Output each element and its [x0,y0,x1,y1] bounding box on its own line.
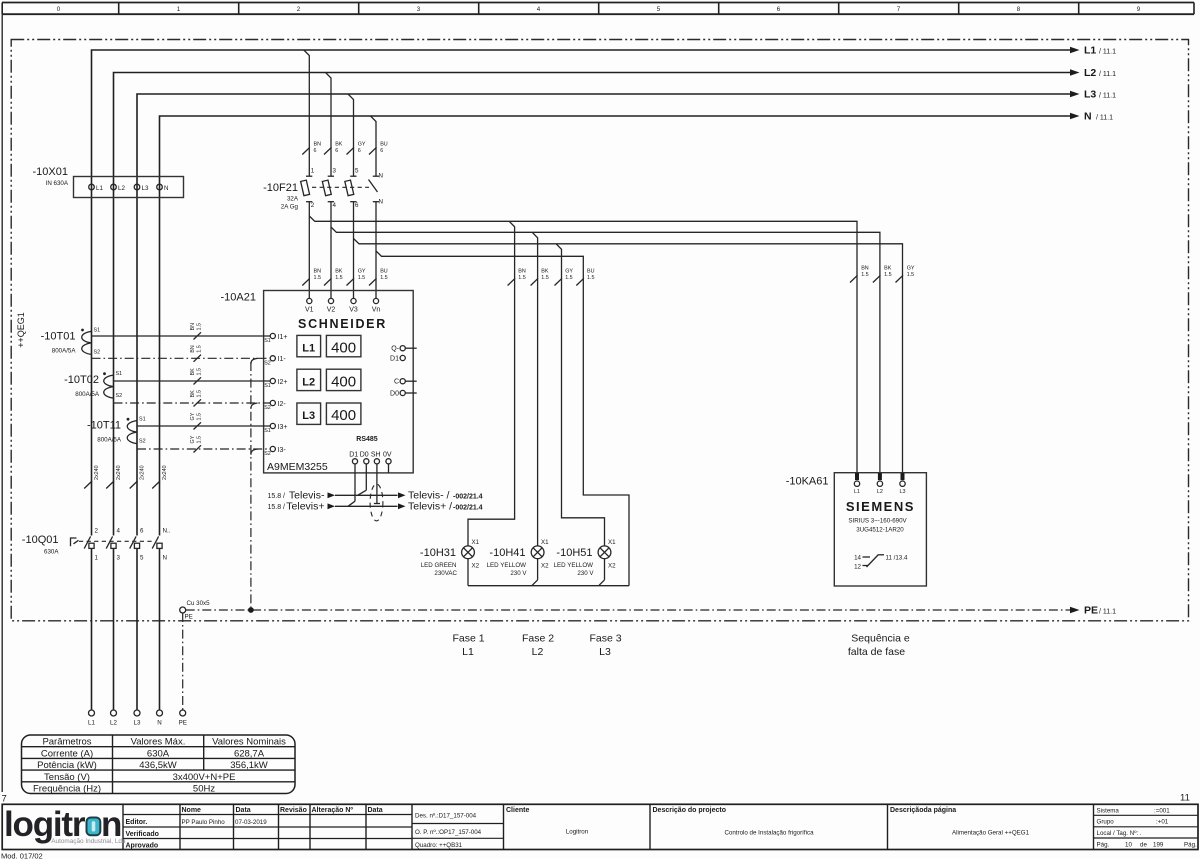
svg-text:-002/21.4: -002/21.4 [453,493,483,500]
svg-text:2: 2 [95,528,99,535]
title block [2,804,1198,849]
svg-text:Descriçãoda página: Descriçãoda página [890,807,956,814]
svg-text:LED GREEN: LED GREEN [421,562,457,569]
node Televis+ source [267,501,335,513]
wire L3 distribution after fuse [354,239,903,474]
svg-text:Cu 30x5: Cu 30x5 [187,600,211,607]
svg-text:BK: BK [884,266,892,272]
svg-text:1.5: 1.5 [518,275,526,281]
current transformer -10T02 [64,371,122,399]
svg-text:230 V: 230 V [510,570,527,577]
svg-text:N..: N.. [163,528,171,535]
svg-text:1: 1 [311,168,315,175]
svg-text:Potência (kW): Potência (kW) [37,760,97,771]
svg-text:1.5: 1.5 [884,272,892,278]
svg-text:630A: 630A [44,549,59,556]
wire L2 top bus [114,73,1072,711]
svg-text:3x400V+N+PE: 3x400V+N+PE [173,772,236,783]
fuse F21 pole 1 [301,176,313,202]
svg-text:L3: L3 [142,185,149,192]
svg-text:2A Gg: 2A Gg [281,204,299,211]
svg-text:S2: S2 [139,439,146,445]
wire lamp3 branch GY [555,244,605,546]
svg-text:PE: PE [179,720,187,727]
svg-text:Grupo: Grupo [1097,819,1115,826]
svg-text:V1: V1 [305,307,314,314]
svg-text:GY: GY [190,412,196,420]
svg-text:12: 12 [854,564,861,571]
svg-text:LED YELLOW: LED YELLOW [554,562,594,569]
logo logitron [4,805,126,845]
svg-text:Controlo de Instalação frigorí: Controlo de Instalação frigorífica [724,830,814,837]
node Televis- destination [398,490,483,502]
svg-text:GY: GY [565,269,573,275]
svg-text:Tensão (V): Tensão (V) [44,772,90,783]
node Televis- source [267,490,335,502]
svg-text:V2: V2 [327,307,336,314]
wire CT T01 S1 to I1+ [92,323,271,340]
svg-text:SIEMENS: SIEMENS [846,499,915,514]
svg-text:BU: BU [587,269,595,275]
wire lamp2 branch BK [531,232,549,546]
svg-text:S1: S1 [116,371,123,377]
svg-text:6: 6 [777,6,781,13]
svg-text:/ 11.1: / 11.1 [1099,609,1116,616]
wire L1 tap to fuse [304,50,310,176]
current transformer -10T01 [41,328,100,356]
svg-text:630A: 630A [147,748,170,759]
svg-text:7: 7 [2,794,7,805]
svg-text:N: N [157,720,161,727]
svg-text:6: 6 [335,148,338,154]
node Televis+ destination [398,501,483,513]
svg-text:Corrente (A): Corrente (A) [41,748,93,759]
svg-text:Sistema: Sistema [1097,808,1120,815]
svg-text:S2: S2 [94,349,101,355]
switch F21 pole N [369,176,380,202]
svg-text:-10F21: -10F21 [263,182,298,194]
phase monitor relay -10KA61 SIEMENS [786,473,927,586]
svg-text:X2: X2 [541,562,549,569]
svg-text:4: 4 [333,202,337,209]
svg-text:/ 11.1: / 11.1 [1099,49,1116,56]
svg-text:6: 6 [358,148,361,154]
svg-text:Data: Data [368,807,383,814]
svg-text:I1-: I1- [278,356,287,363]
wire lamps X2 return [468,559,629,586]
svg-text:2x240: 2x240 [116,465,122,480]
svg-text:L2: L2 [110,720,117,727]
svg-text:Logitron: Logitron [566,829,589,836]
svg-text:Descrição do projecto: Descrição do projecto [653,807,727,814]
svg-text:SH: SH [371,452,381,459]
svg-text:I2+: I2+ [278,379,288,386]
svg-text:1.5: 1.5 [197,368,203,376]
svg-text:LED YELLOW: LED YELLOW [487,562,527,569]
node PE/11.1 [1070,605,1116,617]
svg-text:10: 10 [1125,842,1132,849]
svg-text:IN 630A: IN 630A [46,180,69,187]
svg-text:D1: D1 [390,356,399,363]
svg-text:3: 3 [117,555,121,562]
svg-text:L3: L3 [302,410,315,422]
svg-text:1.5: 1.5 [197,345,203,353]
svg-text:Data: Data [236,807,251,814]
lamp -10H31 [420,539,480,577]
svg-text:07-03-2019: 07-03-2019 [235,819,267,826]
svg-text:S2: S2 [264,405,271,411]
svg-text:-10X01: -10X01 [33,166,68,178]
svg-text:3UG4512-1AR20: 3UG4512-1AR20 [856,527,904,534]
svg-text:2x240: 2x240 [94,465,100,480]
svg-text:C: C [394,379,399,386]
parameters table [22,735,296,795]
label Fase 1 L1 [452,633,484,659]
svg-text:L2: L2 [877,489,883,495]
label Mod [1,852,43,861]
svg-text:Q-: Q- [391,346,399,353]
svg-text:7: 7 [897,6,901,13]
svg-text:436,5kW: 436,5kW [139,760,177,771]
svg-text:L3: L3 [1084,89,1096,101]
svg-text:L3: L3 [900,489,906,495]
svg-text:1.5: 1.5 [861,272,869,278]
meter left terminals I1..I3 [264,333,287,457]
svg-text:BN: BN [518,269,526,275]
wire L2 distribution after fuse [331,227,880,473]
svg-text:14: 14 [854,555,861,562]
label Fase 3 L3 [589,633,621,659]
svg-text:X2: X2 [608,562,616,569]
PE terminal Cu 30x5 [180,600,210,620]
svg-text:-10T11: -10T11 [87,420,121,432]
svg-text:628,7A: 628,7A [234,748,265,759]
svg-text:11 /13.4: 11 /13.4 [886,555,908,562]
wire L2 tap to fuse [326,73,332,177]
svg-text:Televis+ /: Televis+ / [408,501,452,513]
svg-text:4: 4 [537,6,541,13]
lamp -10H51 [554,539,617,577]
svg-text:Quadro: ++QB31: Quadro: ++QB31 [415,842,463,849]
svg-text:BN: BN [314,269,322,275]
wire N top bus [160,116,1072,710]
svg-text:Editor.: Editor. [126,819,148,826]
svg-text:Fase 3: Fase 3 [589,633,621,645]
svg-text:++QEG1: ++QEG1 [16,312,26,348]
svg-text:S2: S2 [264,451,271,457]
svg-text::=001: :=001 [1154,808,1170,815]
svg-text:5: 5 [140,555,144,562]
svg-text:/ 11.1: / 11.1 [1099,93,1116,100]
wire CT T02 S1 to I2+ [114,368,271,385]
svg-text:D0: D0 [390,391,399,398]
wire fuseN to meter Vn [375,202,377,299]
svg-text:1.5: 1.5 [565,275,573,281]
wire L3 tap to fuse [348,94,354,176]
svg-text:S1: S1 [94,328,101,334]
svg-text:PE: PE [1084,605,1098,617]
svg-text:S1: S1 [264,383,271,389]
wire D1 to Televis+ [348,464,355,506]
wire CT T02 S2 to I2- [114,390,271,407]
svg-text:1.5: 1.5 [335,275,343,281]
meter right terminals Q- D1 C D0 [390,346,417,398]
wire N branch BU label [576,269,594,286]
svg-text:1.5: 1.5 [197,390,203,398]
svg-text:1.5: 1.5 [358,275,366,281]
svg-text:N: N [163,555,167,562]
svg-text:Pág.: Pág. [1184,842,1197,849]
wire CT T11 S1 to I3+ [137,412,270,429]
svg-text:BK: BK [335,142,343,148]
svg-text:Frequência (Hz): Frequência (Hz) [33,784,101,795]
svg-text:1.5: 1.5 [197,413,203,421]
wire N tap to fuse [371,116,377,176]
lamp -10H41 [487,539,550,577]
svg-text:-10A21: -10A21 [221,292,256,304]
svg-text:2x240: 2x240 [162,465,168,480]
node L1/11.1 [1070,45,1116,57]
wire fuse2 to meter V2 [330,202,332,299]
svg-text:1: 1 [177,6,181,13]
svg-text:PE: PE [185,613,193,620]
svg-text:L1: L1 [854,489,860,495]
svg-text:N: N [379,173,383,180]
svg-text:1.5: 1.5 [907,272,915,278]
svg-text:1.5: 1.5 [197,323,203,331]
svg-text:S1: S1 [264,428,271,434]
svg-text:-002/21.4: -002/21.4 [453,504,483,511]
svg-text:GY: GY [358,269,366,275]
svg-text:/ 11.1: / 11.1 [1096,115,1113,122]
svg-text:L1: L1 [462,646,474,658]
svg-text:BN: BN [861,266,869,272]
label Fase 2 L2 [522,633,554,659]
svg-text:L3: L3 [599,646,611,658]
svg-text:GY: GY [358,142,366,148]
svg-text:400: 400 [331,407,356,424]
svg-text:400: 400 [331,373,356,390]
svg-text:Fase 1: Fase 1 [452,633,484,645]
wire N distribution after fuse [376,251,629,586]
wire labels BN6 BK6 GY6 BU6 [302,142,387,155]
wire lamp1 branch BN [468,221,526,546]
wire CT T11 S2 to I3- [137,435,270,452]
wire labels BN1.5 set below fuse [302,269,387,286]
svg-text:-10H51: -10H51 [556,547,592,559]
svg-text:5: 5 [657,6,661,13]
svg-text:L1: L1 [302,343,315,355]
svg-text:2: 2 [297,6,301,13]
svg-text:1.5: 1.5 [380,275,388,281]
wire SH shield [374,464,380,504]
wire 0V stub [388,464,390,473]
junction S2 bus to PE [248,607,254,613]
svg-text:Des. nº.:D17_157-004: Des. nº.:D17_157-004 [415,813,477,820]
svg-text:L1: L1 [96,185,103,192]
svg-text:-10H31: -10H31 [420,547,456,559]
svg-text:6: 6 [380,148,383,154]
svg-text:-10T02: -10T02 [64,374,99,386]
wire S2 common bus [251,358,258,608]
svg-text:6: 6 [355,202,359,209]
svg-text:BN: BN [314,142,322,148]
svg-text:SIRIUS 3~-160-690V: SIRIUS 3~-160-690V [848,518,907,525]
svg-text:Fase 2: Fase 2 [522,633,554,645]
svg-text:X2: X2 [472,562,480,569]
svg-text:3: 3 [417,6,421,13]
svg-text:BN: BN [190,323,196,331]
svg-text:SCHNEIDER: SCHNEIDER [298,317,387,331]
svg-text:Cliente: Cliente [506,807,529,814]
svg-text:Alimentação Geral ++QEG1: Alimentação Geral ++QEG1 [952,830,1030,837]
svg-text:50Hz: 50Hz [193,784,215,795]
fuse F21 pole 3 [345,176,357,202]
wire PE riser [182,613,184,710]
svg-text:V3: V3 [349,307,358,314]
wire labels at Siemens drops [850,266,915,283]
svg-text:800A/5A: 800A/5A [52,348,77,355]
wire Televis+ [335,505,398,507]
meter bottom terminals D1 D0 SH 0V [349,452,392,464]
svg-text:2x240: 2x240 [140,465,146,480]
svg-text:BK: BK [190,368,196,376]
current transformer -10T11 [87,417,146,445]
svg-text:800A/5A: 800A/5A [75,391,100,398]
svg-text:L1: L1 [88,720,95,727]
svg-text:Nome: Nome [182,807,202,814]
circuit breaker -10Q01 [22,528,171,562]
svg-text:0: 0 [57,6,61,13]
svg-text:11: 11 [1180,793,1190,804]
svg-text:Televis+: Televis+ [286,501,324,513]
wire PE bus [186,609,1071,611]
svg-text:-10Q01: -10Q01 [22,534,59,546]
svg-text:1.5: 1.5 [197,436,203,444]
svg-text:0V: 0V [383,452,392,459]
svg-text:I3-: I3- [278,447,287,454]
svg-text:6: 6 [314,148,317,154]
svg-text:L2: L2 [302,376,315,388]
fuse switch -10F21 [263,168,383,211]
svg-text:BK: BK [335,269,343,275]
wire CT T01 S2 to I1- [92,345,271,362]
svg-text:/ 11.1: / 11.1 [1099,71,1116,78]
svg-text:Revisão: Revisão [280,807,307,814]
svg-text:-10T01: -10T01 [41,331,76,343]
svg-text:800A/5A: 800A/5A [97,437,122,444]
svg-text:BK: BK [190,390,196,398]
wire L3 top bus [137,94,1071,710]
terminal block X01 -10X01 [33,166,184,198]
svg-text:O. P. nº.:OP17_157-004: O. P. nº.:OP17_157-004 [415,829,482,836]
wire Televis- [335,494,398,496]
bottom terminals L1 L2 L3 N PE [88,710,187,727]
fuse F21 pole 2 [322,176,334,202]
svg-text:A9MEM3255: A9MEM3255 [267,461,328,473]
svg-text:I2-: I2- [278,401,287,408]
svg-text:GY: GY [907,266,915,272]
svg-text:Local / Tag. Nº: .: Local / Tag. Nº: . [1097,830,1142,837]
svg-text:1.5: 1.5 [314,275,322,281]
wire L1 distribution after fuse [309,216,857,473]
svg-text:de: de [1140,842,1147,849]
svg-text:S2: S2 [116,393,123,399]
svg-text:Vn: Vn [372,307,381,314]
svg-text:8: 8 [1017,6,1021,13]
node L2/11.1 [1070,67,1116,79]
svg-text:6: 6 [140,528,144,535]
svg-text:Valores Máx.: Valores Máx. [131,737,186,748]
svg-text::+01: :+01 [1156,819,1169,826]
svg-text:3: 3 [333,168,337,175]
cable screen ellipse [370,484,383,521]
wire D0 to Televis- [358,464,367,495]
svg-text:Alteração Nº: Alteração Nº [312,807,354,814]
svg-text:D0: D0 [360,452,369,459]
svg-text:5: 5 [355,168,359,175]
svg-text:Verificado: Verificado [126,831,159,838]
power meter -10A21 A9MEM3255 [221,291,414,474]
svg-text:Pág.: Pág. [1097,842,1110,849]
svg-text:1: 1 [95,555,99,562]
svg-text:GY: GY [190,435,196,443]
svg-text:-10KA61: -10KA61 [786,476,829,488]
svg-text:Parâmetros: Parâmetros [42,737,91,748]
node L3/11.1 [1070,89,1116,101]
wire fuse1 to meter V1 [308,202,310,299]
svg-text:Automação Industrial, Lda: Automação Industrial, Lda [51,838,126,845]
svg-text:RS485: RS485 [356,436,378,443]
svg-text:BU: BU [380,142,388,148]
svg-text:356,1kW: 356,1kW [230,760,268,771]
svg-text:2: 2 [311,202,315,209]
svg-text:falta de fase: falta de fase [848,646,905,658]
svg-text:9: 9 [1137,6,1141,13]
svg-text:-10H41: -10H41 [489,547,525,559]
svg-text:15.8 /: 15.8 / [267,504,285,511]
svg-text:BU: BU [380,269,388,275]
svg-text:Sequência e: Sequência e [851,633,910,645]
svg-text:230VAC: 230VAC [434,570,457,577]
svg-text:D1: D1 [349,452,358,459]
svg-text:S2: S2 [264,360,271,366]
svg-text:15.8 /: 15.8 / [267,493,285,500]
svg-text:L1: L1 [1084,45,1096,57]
svg-text:L3: L3 [134,720,141,727]
svg-text:BN: BN [190,345,196,353]
svg-text:BK: BK [541,269,549,275]
svg-text:X1: X1 [608,539,616,546]
svg-text:N: N [164,185,168,192]
svg-text:S1: S1 [139,417,146,423]
svg-text:N: N [379,199,383,206]
svg-text:230 V: 230 V [577,570,594,577]
svg-text:L2: L2 [118,185,125,192]
svg-text:PP Paulo Pinho: PP Paulo Pinho [182,819,226,826]
label Sequencia [848,633,910,659]
svg-text:Valores Nominais: Valores Nominais [212,737,286,748]
svg-text:4: 4 [117,528,121,535]
svg-text:X1: X1 [541,539,549,546]
enclosure ++QEG1 [11,40,1188,621]
svg-text:32A: 32A [287,196,299,203]
svg-text:N: N [1084,111,1092,123]
wire fuse3 to meter V3 [353,202,355,299]
svg-text:L2: L2 [532,646,544,658]
svg-text:L2: L2 [1084,67,1096,79]
svg-text:I1+: I1+ [278,334,288,341]
